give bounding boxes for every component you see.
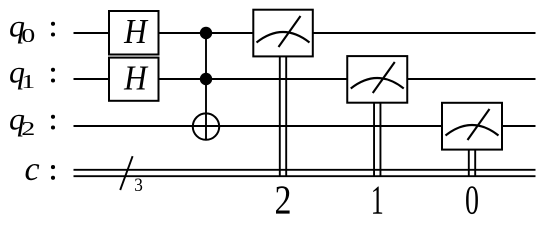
measurement gate on q0 (253, 10, 312, 57)
measurement double wire q2 to c (469, 149, 475, 177)
svg-text:2: 2 (21, 118, 35, 140)
svg-text:3: 3 (134, 175, 143, 196)
quantum wire q1 (74, 78, 536, 80)
ccx control dot on q0 (200, 27, 212, 39)
measurement double wire q0 to c (280, 56, 286, 177)
qubit label q0 (9, 8, 55, 48)
svg-text:H: H (123, 12, 148, 51)
svg-text:1: 1 (371, 177, 384, 223)
measurement gate on q1 (347, 56, 407, 103)
classical register label c (25, 151, 56, 188)
svg-text:2: 2 (275, 177, 292, 223)
svg-text:1: 1 (21, 71, 35, 93)
measurement gate on q2 (442, 103, 502, 150)
ccx target on q2 (193, 113, 219, 139)
svg-text:0: 0 (21, 25, 35, 47)
qubit label q1 (9, 54, 55, 94)
qubit label q2 (9, 101, 55, 141)
ccx control wire (205, 33, 207, 140)
hadamard gate H on q1 (109, 58, 159, 101)
measurement double wire q1 to c (374, 102, 380, 177)
svg-text:H: H (123, 58, 148, 97)
quantum wire q0 (74, 32, 536, 34)
hadamard gate H on q0 (109, 11, 159, 55)
classical wire c (double line) (74, 170, 536, 176)
ccx control dot on q1 (200, 73, 212, 85)
classical wire width slash (120, 156, 132, 190)
svg-text:c: c (25, 151, 40, 188)
quantum wire q2 (74, 125, 536, 127)
svg-text:0: 0 (465, 177, 479, 223)
